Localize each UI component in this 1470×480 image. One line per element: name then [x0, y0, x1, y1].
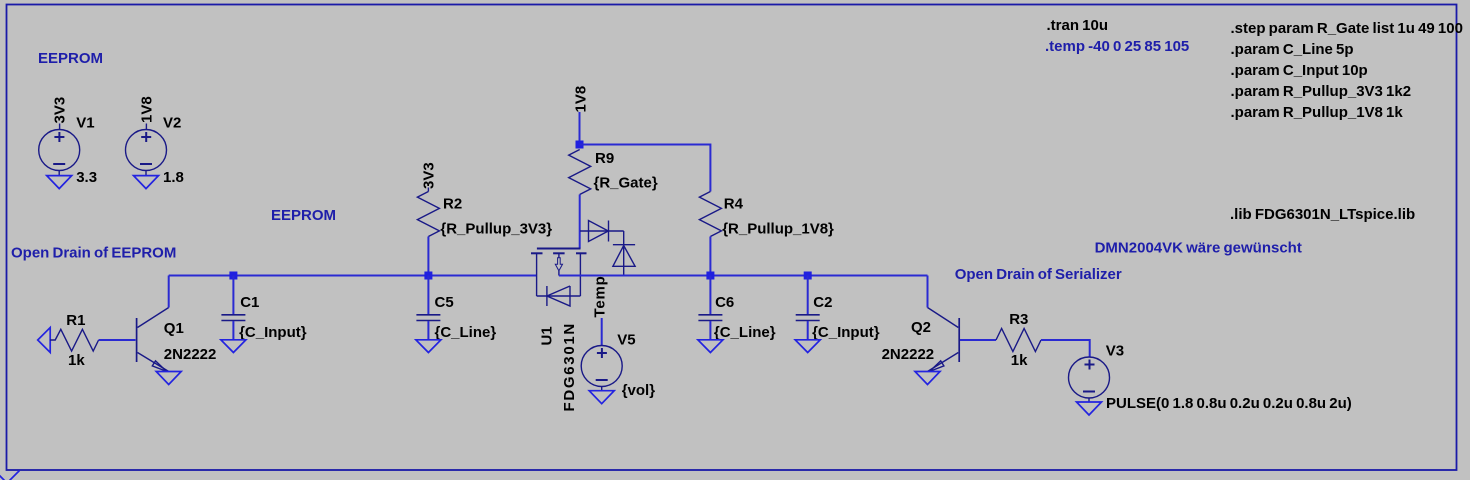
svg-text:.param C_Input 10p: .param C_Input 10p — [1231, 62, 1368, 79]
ground (V3) — [1077, 402, 1102, 415]
svg-text:Open Drain of Serializer: Open Drain of Serializer — [955, 266, 1122, 283]
wire 1V8 stub — [579, 112, 581, 145]
ground (V2) — [134, 176, 159, 189]
svg-text:R1: R1 — [66, 312, 85, 329]
svg-text:3.3: 3.3 — [76, 169, 97, 186]
svg-text:3V3: 3V3 — [52, 97, 69, 124]
ground (bottom-left corner, clipped) — [0, 471, 20, 480]
svg-text:.lib FDG6301N_LTspice.lib: .lib FDG6301N_LTspice.lib — [1230, 206, 1415, 223]
resistor R4 — [699, 192, 721, 237]
svg-text:2N2222: 2N2222 — [882, 346, 935, 363]
svg-text:C5: C5 — [435, 294, 454, 311]
svg-text:1k: 1k — [1011, 352, 1028, 369]
resistor R2 — [417, 188, 439, 237]
svg-text:EEPROM: EEPROM — [271, 207, 336, 224]
wire R2 bottom lead — [427, 237, 429, 276]
svg-text:{R_Pullup_3V3}: {R_Pullup_3V3} — [440, 220, 552, 237]
wire 1V8 rail to R4 — [580, 145, 711, 192]
svg-text:3V3: 3V3 — [421, 162, 438, 189]
transistor Q2 2N2222 — [928, 308, 960, 372]
svg-text:{C_Input}: {C_Input} — [239, 324, 307, 341]
wire R3 to V3 — [1041, 340, 1090, 357]
resistor R9 — [569, 150, 591, 195]
voltage source V5 — [581, 346, 622, 391]
ground (C5) — [416, 340, 441, 353]
diode gate clamp D2 — [613, 231, 635, 276]
svg-text:1k: 1k — [68, 352, 85, 369]
wire Q1 collector — [168, 276, 170, 308]
wire C6 lower lead — [709, 321, 711, 340]
svg-text:{C_Input}: {C_Input} — [812, 324, 880, 341]
svg-text:1.8: 1.8 — [163, 169, 184, 186]
wire bus segment A — [169, 275, 537, 277]
svg-text:R9: R9 — [595, 150, 614, 167]
transistor Q1 2N2222 — [137, 308, 169, 372]
svg-text:1V8: 1V8 — [139, 96, 156, 123]
ground (V5) — [589, 391, 614, 404]
svg-text:2N2222: 2N2222 — [164, 346, 217, 363]
svg-text:V5: V5 — [617, 332, 635, 349]
wire C2 lower lead — [807, 321, 809, 340]
svg-text:.tran 10u: .tran 10u — [1047, 17, 1109, 34]
node junction 1V8 rail — [576, 141, 584, 149]
wire C5 stem — [427, 276, 429, 315]
svg-text:{C_Line}: {C_Line} — [435, 324, 497, 341]
wire R9 to gate — [579, 195, 581, 249]
ground (Q2 emitter) — [915, 372, 940, 385]
capacitor C5 — [416, 315, 440, 321]
node junction C1 — [229, 272, 237, 280]
svg-text:V2: V2 — [163, 115, 181, 132]
svg-text:V1: V1 — [76, 115, 94, 132]
resistor R1 — [50, 329, 99, 351]
svg-text:C2: C2 — [813, 294, 832, 311]
wire bus segment B — [559, 275, 928, 277]
svg-text:Q1: Q1 — [164, 320, 184, 337]
svg-text:DMN2004VK wäre gewünscht: DMN2004VK wäre gewünscht — [1095, 239, 1302, 256]
svg-text:EEPROM: EEPROM — [38, 50, 103, 67]
svg-text:FDG6301N: FDG6301N — [561, 322, 578, 411]
voltage source V2 — [126, 124, 167, 176]
svg-text:{R_Gate}: {R_Gate} — [594, 175, 658, 192]
ground (Q1 emitter) — [156, 372, 181, 385]
wire Q2 collector — [927, 276, 929, 308]
svg-text:.temp -40 0 25 85 105: .temp -40 0 25 85 105 — [1045, 38, 1189, 55]
resistor R3 — [996, 329, 1041, 352]
svg-text:V3: V3 — [1106, 343, 1124, 360]
wire C1 stem — [232, 276, 234, 315]
svg-text:.param R_Pullup_3V3 1k2: .param R_Pullup_3V3 1k2 — [1231, 83, 1412, 100]
wire R4 bottom lead — [709, 237, 711, 276]
capacitor C6 — [698, 315, 722, 321]
ground (C1) — [221, 340, 246, 353]
wire C5 lower lead — [427, 321, 429, 340]
svg-text:U1: U1 — [539, 326, 556, 345]
svg-text:Open Drain of EEPROM: Open Drain of EEPROM — [11, 245, 176, 262]
ground (V1) — [47, 176, 72, 189]
mosfet U1 FDG6301N — [531, 249, 587, 307]
svg-text:.step param R_Gate list 1u 49: .step param R_Gate list 1u 49 100 — [1231, 20, 1463, 37]
svg-text:{vol}: {vol} — [622, 382, 656, 399]
svg-text:{R_Pullup_1V8}: {R_Pullup_1V8} — [722, 220, 834, 237]
svg-text:.param R_Pullup_1V8 1k: .param R_Pullup_1V8 1k — [1231, 104, 1404, 121]
svg-text:R4: R4 — [724, 196, 744, 213]
wire Q2 base to R3 — [960, 339, 996, 341]
ground (R1 left, rotated) — [38, 328, 51, 353]
voltage source V3 — [1069, 357, 1110, 402]
svg-text:PULSE(0 1.8 0.8u 0.2u 0.2u 0.8: PULSE(0 1.8 0.8u 0.2u 0.2u 0.8u 2u) — [1106, 395, 1352, 412]
svg-text:R2: R2 — [443, 196, 462, 213]
wire Temp to V5 — [601, 318, 603, 346]
voltage source V1 — [39, 124, 80, 176]
svg-text:1V8: 1V8 — [573, 86, 590, 113]
svg-text:R3: R3 — [1009, 311, 1028, 328]
svg-text:C6: C6 — [715, 294, 734, 311]
node junction R4/C6 — [706, 272, 714, 280]
svg-text:.param C_Line 5p: .param C_Line 5p — [1231, 41, 1354, 58]
ground (C2) — [795, 340, 820, 353]
wire R1 to Q1 base — [99, 339, 136, 341]
svg-text:C1: C1 — [240, 294, 259, 311]
wire C6 stem — [709, 276, 711, 315]
ground (C6) — [698, 340, 723, 353]
diode gate clamp D1 — [580, 221, 624, 242]
wire C1 lower lead — [232, 321, 234, 340]
capacitor C2 — [796, 315, 820, 321]
node junction R2/C5 — [424, 272, 432, 280]
node junction C2 — [804, 272, 812, 280]
capacitor C1 — [221, 315, 245, 321]
svg-text:Q2: Q2 — [911, 319, 931, 336]
wire C2 stem — [807, 276, 809, 315]
svg-text:Temp: Temp — [591, 275, 608, 317]
svg-text:{C_Line}: {C_Line} — [714, 324, 776, 341]
